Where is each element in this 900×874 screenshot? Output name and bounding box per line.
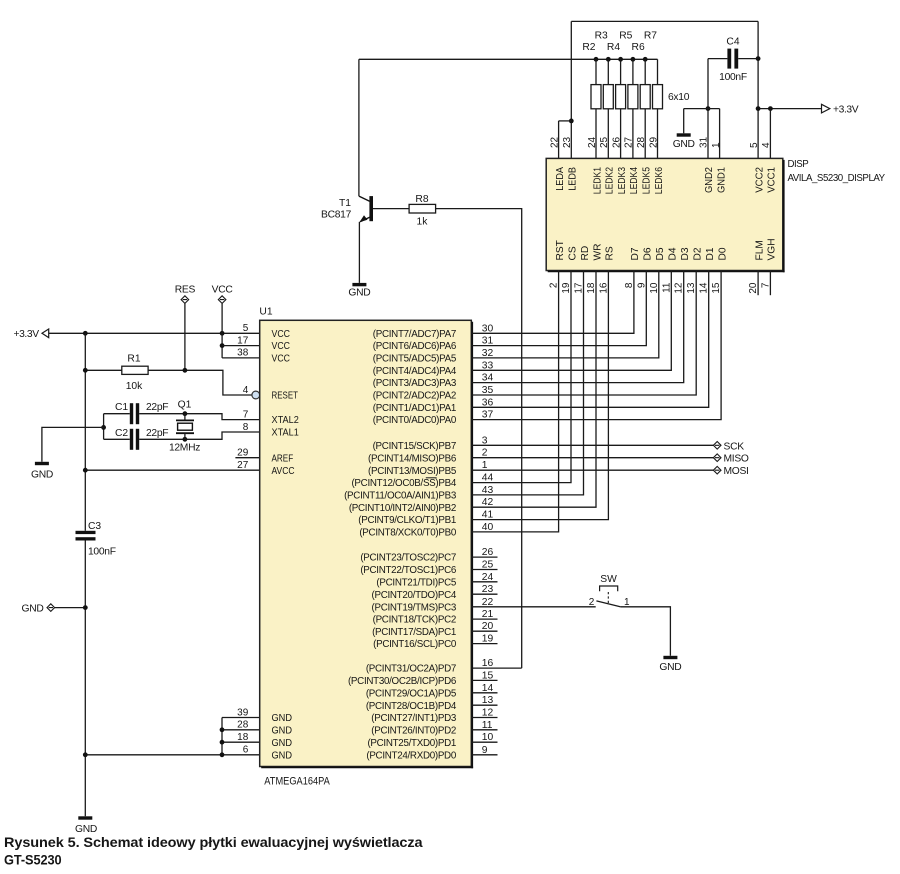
svg-text:GND: GND (272, 738, 293, 749)
svg-text:VCC: VCC (272, 354, 291, 365)
wire CS to PB4 (471, 271, 571, 483)
svg-text:DISP: DISP (788, 159, 809, 170)
wire R7 to LEDK6 (657, 109, 659, 159)
wire U1 gnd tie (221, 718, 223, 755)
wire R5 top lead (632, 59, 634, 84)
wire collector rail to resistors (359, 58, 658, 60)
junction R6 top (643, 57, 648, 62)
wire C4 left (708, 58, 727, 60)
svg-text:RESET: RESET (272, 391, 299, 402)
svg-text:GND: GND (22, 604, 44, 615)
svg-text:(PCINT4/ADC4)PA4: (PCINT4/ADC4)PA4 (373, 366, 457, 377)
resistor R1 (122, 366, 148, 374)
svg-text:7: 7 (243, 409, 249, 420)
svg-text:29: 29 (237, 448, 249, 459)
wire R6 top lead (644, 59, 646, 84)
svg-text:LEDA: LEDA (555, 167, 566, 191)
terminal MISO (713, 454, 721, 462)
wire VGH stub (769, 271, 771, 296)
wire SCK (471, 444, 713, 446)
transistor T1 BC817 (359, 196, 373, 222)
capacitor C4 plates (727, 49, 731, 69)
svg-text:C1: C1 (115, 402, 128, 413)
wire stub pin 12 (471, 717, 497, 719)
svg-text:BC817: BC817 (321, 210, 352, 221)
display connector DISP AVILA_S5230_DISPLAY (546, 158, 784, 272)
svg-text:C4: C4 (726, 37, 739, 48)
svg-text:4: 4 (761, 142, 772, 148)
svg-text:(PCINT29/OC1A)PD5: (PCINT29/OC1A)PD5 (366, 688, 457, 699)
svg-text:AVILA_S5230_DISPLAY: AVILA_S5230_DISPLAY (788, 173, 886, 184)
junction R2 top (594, 57, 599, 62)
wire +3.3V to U1 VCC pin 5 (49, 332, 260, 334)
svg-text:16: 16 (482, 658, 494, 669)
svg-text:GND: GND (272, 750, 293, 761)
ground symbol SW (663, 656, 677, 659)
svg-text:XTAL1: XTAL1 (272, 428, 300, 439)
wire GND2 column (707, 59, 709, 159)
wire T1 emitter to gnd (358, 222, 360, 283)
svg-text:RS: RS (605, 246, 616, 260)
svg-text:(PCINT17/SDA)PC1: (PCINT17/SDA)PC1 (372, 627, 456, 638)
ground symbol display (677, 133, 691, 136)
svg-text:+3.3V: +3.3V (13, 329, 39, 340)
svg-text:C2: C2 (115, 428, 128, 439)
svg-text:GT-S5230: GT-S5230 (4, 852, 62, 868)
junction gnd tie 28 (220, 727, 225, 732)
svg-text:R2: R2 (582, 42, 595, 53)
wire D6 to PA6 (471, 271, 646, 346)
svg-text:31: 31 (699, 136, 710, 148)
wire D1 to PA1 (471, 271, 708, 408)
wire C1-C2 left tie (103, 414, 105, 440)
svg-text:LEDK6: LEDK6 (654, 167, 665, 194)
svg-text:GND: GND (659, 662, 681, 673)
svg-text:GND: GND (673, 139, 695, 150)
wire stub pin 13 (471, 704, 497, 706)
svg-text:(PCINT31/OC2A)PD7: (PCINT31/OC2A)PD7 (366, 664, 456, 675)
svg-text:GND2: GND2 (704, 167, 715, 193)
svg-text:(PCINT2/ADC2)PA2: (PCINT2/ADC2)PA2 (373, 391, 456, 402)
svg-text:(PCINT26/INT0)PD2: (PCINT26/INT0)PD2 (371, 725, 456, 736)
wire C1 to XTAL2 (139, 414, 260, 420)
wire gnd drop display (683, 109, 685, 134)
wire RST to PB0 (471, 271, 558, 532)
svg-text:RES: RES (175, 285, 196, 296)
switch actuator dashed link (607, 591, 609, 603)
wire crystal gnd (42, 427, 104, 461)
svg-text:R1: R1 (127, 354, 140, 365)
svg-text:T1: T1 (339, 198, 351, 209)
svg-text:ATMEGA164PA: ATMEGA164PA (264, 775, 330, 787)
svg-text:LEDB: LEDB (568, 167, 579, 191)
junction vcc2 (756, 106, 761, 111)
terminal VCC (218, 296, 226, 304)
wire stub pin 9 (471, 754, 497, 756)
wire GND pin 18 (222, 741, 260, 743)
svg-text:VCC2: VCC2 (754, 167, 765, 193)
wire T1 collector (358, 59, 360, 196)
wire vcc to +3.3V terminal (758, 108, 821, 110)
wire stub pin 20 (471, 630, 497, 632)
wire GND terminal to rail (55, 607, 86, 609)
svg-text:C3: C3 (88, 521, 101, 532)
wire R3 top lead (607, 59, 609, 84)
wire C4 right (738, 58, 758, 60)
wire GND pin 28 (222, 729, 260, 731)
wire +3.3V rail down to C3 (84, 333, 86, 531)
wire rail to U1 GND pins (85, 754, 222, 756)
junction rail R1 (83, 368, 88, 373)
svg-text:28: 28 (237, 720, 249, 731)
svg-text:5: 5 (243, 323, 249, 334)
wire R2 to LEDK1 (595, 109, 597, 159)
wire stub pin 24 (471, 581, 497, 583)
svg-text:(PCINT3/ADC3)PA3: (PCINT3/ADC3)PA3 (373, 378, 457, 389)
wire R6 to LEDK5 (644, 109, 646, 159)
resistor R7 (653, 85, 663, 109)
svg-text:(PCINT27/INT1)PD3: (PCINT27/INT1)PD3 (371, 713, 457, 724)
svg-text:22pF: 22pF (146, 402, 168, 413)
svg-text:RST: RST (555, 240, 566, 260)
svg-text:FLM: FLM (754, 240, 765, 260)
svg-text:(PCINT11/OC0A/AIN1)PB3: (PCINT11/OC0A/AIN1)PB3 (344, 491, 457, 502)
svg-text:(PCINT5/ADC5)PA5: (PCINT5/ADC5)PA5 (373, 354, 457, 365)
svg-text:D0: D0 (717, 247, 728, 260)
capacitor C1 plates (130, 403, 133, 424)
wire D4 to PA4 (471, 271, 671, 371)
svg-text:(PCINT15/SCK)PB7: (PCINT15/SCK)PB7 (373, 441, 456, 452)
svg-text:25: 25 (599, 136, 610, 148)
resistor R8 (409, 204, 436, 213)
svg-text:D4: D4 (668, 247, 679, 260)
svg-text:R4: R4 (607, 42, 620, 53)
svg-text:D3: D3 (680, 247, 691, 260)
microcontroller U1 ATMEGA164PA (260, 320, 473, 768)
svg-text:R8: R8 (415, 194, 428, 205)
svg-text:LEDK4: LEDK4 (629, 167, 640, 194)
svg-text:Rysunek 5. Schemat ideowy płyt: Rysunek 5. Schemat ideowy płytki ewaluac… (4, 834, 423, 850)
svg-text:CS: CS (567, 246, 578, 260)
svg-text:29: 29 (648, 136, 659, 148)
wire PC3 to SW (471, 606, 595, 608)
crystal Q1 (176, 414, 194, 440)
junction crystal top (183, 411, 188, 416)
svg-text:(PCINT14/MISO)PB6: (PCINT14/MISO)PB6 (368, 453, 457, 464)
svg-text:MISO: MISO (724, 454, 749, 465)
svg-text:Q1: Q1 (178, 400, 192, 411)
svg-text:XTAL2: XTAL2 (272, 415, 300, 426)
svg-text:U1: U1 (259, 307, 272, 318)
wire VCC2 column (757, 21, 759, 158)
switch SW actuator bracket (600, 586, 618, 591)
svg-text:VCC: VCC (272, 329, 291, 340)
svg-text:1k: 1k (417, 217, 429, 228)
wire gnd rail below C3 (84, 541, 86, 817)
svg-text:(PCINT13/MOSI)PB5: (PCINT13/MOSI)PB5 (368, 466, 457, 477)
wire R1 to RESET pin 4 (148, 370, 252, 395)
svg-text:WR: WR (592, 244, 603, 261)
wire D2 to PA2 (471, 271, 696, 396)
overline over SS of PB4 (426, 477, 437, 479)
wire stub pin 21 (471, 618, 497, 620)
svg-text:(PCINT10/INT2/AIN0)PB2: (PCINT10/INT2/AIN0)PB2 (349, 503, 456, 514)
resistor R6 (640, 85, 650, 109)
svg-text:(PCINT19/TMS)PC3: (PCINT19/TMS)PC3 (372, 602, 457, 613)
svg-text:22: 22 (549, 136, 560, 148)
wire FLM stub (757, 271, 759, 296)
+3.3V supply terminal (left) (42, 329, 49, 338)
wire stub pin 23 (471, 593, 497, 595)
svg-text:100nF: 100nF (88, 547, 116, 558)
svg-text:(PCINT9/CLKO/T1)PB1: (PCINT9/CLKO/T1)PB1 (358, 515, 456, 526)
svg-text:LEDK5: LEDK5 (642, 167, 653, 194)
svg-text:(PCINT7/ADC7)PA7: (PCINT7/ADC7)PA7 (373, 329, 456, 340)
junction C1C2 gnd tap (101, 425, 106, 430)
svg-text:LEDK3: LEDK3 (617, 167, 628, 194)
resistor R2 (591, 85, 601, 109)
svg-text:AREF: AREF (272, 453, 294, 464)
junction VCC drop pin5 (220, 331, 225, 336)
wire rail to R1 (85, 369, 122, 371)
svg-text:D2: D2 (693, 247, 704, 260)
svg-text:8: 8 (243, 422, 249, 433)
svg-text:GND1: GND1 (716, 167, 727, 193)
wire R4 to LEDK3 (620, 109, 622, 159)
junction R4 top (618, 57, 623, 62)
resistor R5 (628, 85, 638, 109)
switch SW contact blade (596, 601, 620, 607)
svg-text:D1: D1 (705, 247, 716, 260)
svg-text:38: 38 (237, 348, 249, 359)
svg-text:(PCINT8/XCK0/T0)PB0: (PCINT8/XCK0/T0)PB0 (359, 528, 457, 539)
svg-text:VGH: VGH (767, 238, 778, 260)
svg-text:GND: GND (348, 288, 370, 299)
wire RD to PB3 (471, 271, 583, 495)
wire GND pin 39 (222, 717, 260, 719)
wire RES to reset net (184, 303, 186, 370)
svg-text:VCC: VCC (272, 341, 291, 352)
terminal RES (181, 296, 189, 304)
junction gnd tie 18 (220, 740, 225, 745)
svg-text:(PCINT22/TOSC1)PC6: (PCINT22/TOSC1)PC6 (360, 565, 457, 576)
svg-text:VCC: VCC (212, 285, 234, 296)
svg-text:6x10: 6x10 (668, 92, 690, 103)
wire C2 to XTAL1 (139, 432, 260, 439)
svg-text:28: 28 (636, 136, 647, 148)
svg-text:R5: R5 (619, 31, 632, 42)
wire stub pin 14 (471, 692, 497, 694)
+3.3V supply terminal (right) (822, 104, 830, 113)
terminal MOSI (713, 466, 721, 474)
svg-text:5: 5 (749, 142, 760, 148)
wire LEDB column (570, 21, 572, 158)
wire SW to gnd (620, 607, 670, 656)
svg-text:(PCINT28/OC1B)PD4: (PCINT28/OC1B)PD4 (366, 701, 457, 712)
wire stub pin 11 (471, 729, 497, 731)
svg-text:SCK: SCK (724, 441, 745, 452)
svg-text:4: 4 (243, 385, 249, 396)
svg-text:LEDK2: LEDK2 (605, 167, 616, 194)
junction gnd tie 6 (220, 752, 225, 757)
svg-text:27: 27 (624, 136, 635, 148)
junction rail gnd terminal (83, 605, 88, 610)
junction RES net (183, 368, 188, 373)
svg-text:LEDK1: LEDK1 (592, 167, 603, 194)
svg-text:R3: R3 (595, 31, 608, 42)
wire stub pin 19 (471, 643, 497, 645)
capacitor C2 plates (130, 429, 133, 450)
wire AREF stub pin 29 (235, 457, 259, 459)
junction C4 vcc (756, 56, 761, 61)
RESET active-low bubble (252, 391, 260, 399)
wire R2 top lead (595, 59, 597, 84)
terminal SCK (713, 442, 721, 450)
wire GND pin 6 (222, 754, 260, 756)
svg-text:17: 17 (237, 335, 249, 346)
svg-text:D6: D6 (643, 247, 654, 260)
svg-text:MOSI: MOSI (724, 466, 749, 477)
wire stub pin 26 (471, 556, 497, 558)
svg-text:18: 18 (237, 732, 249, 743)
wire MISO (471, 457, 713, 459)
wire R7 top lead (657, 59, 659, 84)
svg-text:(PCINT23/TOSC2)PC7: (PCINT23/TOSC2)PC7 (360, 553, 456, 564)
svg-text:VCC1: VCC1 (767, 167, 778, 193)
svg-text:24: 24 (587, 136, 598, 148)
svg-text:6: 6 (243, 745, 249, 756)
wire LEDA column (558, 121, 560, 158)
svg-text:12MHz: 12MHz (169, 443, 200, 454)
svg-text:SW: SW (600, 574, 617, 585)
svg-text:2: 2 (589, 597, 595, 608)
ground symbol crystal (35, 462, 49, 465)
svg-text:(PCINT0/ADC0)PA0: (PCINT0/ADC0)PA0 (373, 415, 457, 426)
junction R5 top (631, 57, 636, 62)
svg-text:RD: RD (580, 246, 591, 261)
wire VCC pin 38 (222, 357, 260, 359)
junction LEDA LEDB (569, 119, 574, 124)
svg-text:100nF: 100nF (719, 72, 747, 83)
svg-text:AVCC: AVCC (272, 466, 295, 477)
svg-text:22pF: 22pF (146, 428, 168, 439)
wire T1 base to R8 (373, 208, 409, 210)
svg-text:D7: D7 (630, 247, 641, 260)
resistor R3 (603, 85, 613, 109)
svg-text:39: 39 (237, 707, 249, 718)
svg-text:GND: GND (272, 713, 293, 724)
svg-text:23: 23 (562, 136, 573, 148)
svg-text:(PCINT1/ADC1)PA1: (PCINT1/ADC1)PA1 (373, 403, 456, 414)
wire stub pin 25 (471, 569, 497, 571)
svg-text:D5: D5 (655, 247, 666, 260)
junction rail U1 gnd (83, 752, 88, 757)
ground symbol T1 (352, 283, 366, 286)
svg-text:(PCINT21/TDI)PC5: (PCINT21/TDI)PC5 (376, 577, 456, 588)
wire stub pin 10 (471, 741, 497, 743)
svg-text:(PCINT12/OC0B/SS)PB4: (PCINT12/OC0B/SS)PB4 (351, 478, 456, 489)
wire R8 to PD7 (436, 209, 522, 668)
svg-text:(PCINT30/OC2B/ICP)PD6: (PCINT30/OC2B/ICP)PD6 (348, 676, 457, 687)
svg-text:(PCINT25/TXD0)PD1: (PCINT25/TXD0)PD1 (367, 738, 456, 749)
wire AVCC pin 27 (85, 469, 259, 471)
svg-text:(PCINT16/SCL)PC0: (PCINT16/SCL)PC0 (373, 639, 457, 650)
svg-text:+3.3V: +3.3V (833, 104, 859, 115)
junction crystal bottom (183, 437, 188, 442)
wire gnd jog (684, 108, 720, 110)
junction +3.3V rail (83, 331, 88, 336)
svg-text:R7: R7 (644, 31, 657, 42)
wire GND1 column (719, 109, 721, 159)
wire D7 to PA7 (471, 271, 634, 334)
wire C2 left lead (104, 438, 130, 440)
wire D0 to PA0 (471, 271, 721, 420)
svg-text:GND: GND (31, 470, 53, 481)
ground symbol bottom rail (78, 816, 92, 819)
wire LEDA jog (559, 120, 572, 122)
wire VCC drop to pins 5 17 38 (221, 303, 223, 358)
wire WR to PB2 (471, 271, 596, 508)
wire stub pin 15 (471, 679, 497, 681)
wire MOSI (471, 469, 713, 471)
wire D5 to PA5 (471, 271, 659, 358)
resistor R4 (616, 85, 626, 109)
junction vcc1 (768, 106, 773, 111)
svg-text:GND: GND (272, 725, 293, 736)
wire D3 to PA3 (471, 271, 683, 383)
svg-text:10k: 10k (126, 381, 143, 392)
wire R3 to LEDK2 (607, 109, 609, 159)
junction R3 top (606, 57, 611, 62)
capacitor C3 plates (76, 531, 96, 534)
wire VCC pin 17 (222, 345, 260, 347)
svg-text:(PCINT6/ADC6)PA6: (PCINT6/ADC6)PA6 (373, 341, 457, 352)
svg-text:(PCINT20/TDO)PC4: (PCINT20/TDO)PC4 (372, 590, 457, 601)
wire R4 top lead (620, 59, 622, 84)
svg-text:27: 27 (237, 460, 249, 471)
svg-text:1: 1 (711, 142, 722, 148)
wire top rail (571, 20, 758, 22)
svg-text:(PCINT24/RXD0)PD0: (PCINT24/RXD0)PD0 (366, 750, 456, 761)
svg-text:R6: R6 (632, 42, 645, 53)
wire RS to PB1 (471, 271, 608, 520)
junction rail AVCC (83, 468, 88, 473)
wire VCC1 column (769, 109, 771, 159)
wire R5 to LEDK4 (632, 109, 634, 159)
terminal GND left (47, 604, 55, 612)
svg-text:(PCINT18/TCK)PC2: (PCINT18/TCK)PC2 (373, 615, 456, 626)
wire PD7 pin 16 (471, 667, 521, 669)
svg-text:26: 26 (611, 136, 622, 148)
junction VCC pin17 (220, 343, 225, 348)
junction display gnd (706, 106, 711, 111)
wire C1 left lead (104, 413, 130, 415)
